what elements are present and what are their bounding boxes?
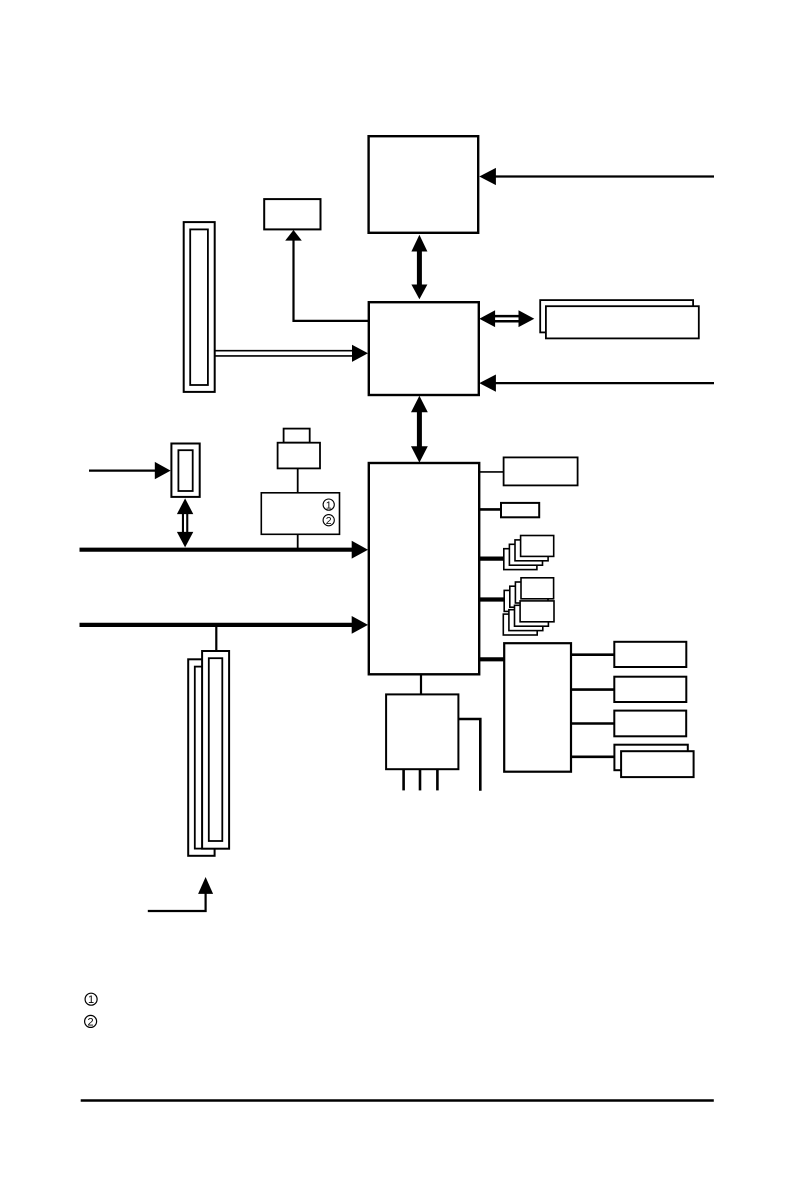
USB stack B upper (4 ports) (504, 578, 553, 612)
note mark 2 in box (323, 515, 334, 527)
floppy box (614, 711, 686, 737)
wire: audio codec right bent line down (458, 719, 480, 791)
SATA box (501, 503, 539, 517)
CPU box U1 (369, 136, 479, 233)
wire: super IO to floppy box (571, 722, 614, 725)
wire: PCI bus down to PCI slots (215, 626, 217, 652)
wire: arrow into CPU right side (494, 175, 714, 177)
LPT box (614, 677, 686, 702)
footnote mark 1 (85, 993, 97, 1006)
footnote mark 2 (85, 1015, 97, 1028)
svg-text:2: 2 (326, 515, 332, 527)
svg-text:1: 1 (326, 499, 332, 511)
BIOS chip body (278, 443, 320, 469)
wire: bottom bent arrow up to PCI slots (148, 892, 206, 911)
USB stack B lower (4 ports) (503, 601, 554, 635)
memory slot (front) (546, 306, 699, 338)
wire: SB to USB stack A (479, 556, 521, 560)
BIOS chip notch (284, 429, 310, 443)
svg-text:1: 1 (88, 994, 94, 1006)
wire: super IO to IDE boxes (571, 755, 614, 758)
super IO box U4 (504, 643, 571, 772)
north bridge box U2 (369, 302, 479, 395)
wire: PCI bus thick arrow into SB (80, 623, 353, 627)
box: clock generator (264, 199, 320, 229)
wire: NB to clock generator with up arrow (294, 239, 370, 321)
svg-text:2: 2 (88, 1016, 94, 1028)
wire: memory bus double arrow (492, 315, 521, 323)
memory slot (back) (540, 300, 693, 332)
wire: arrow into keyboard connector (89, 470, 155, 472)
wire: SB to super IO thick line (479, 657, 505, 661)
IDE box (front) (621, 751, 694, 777)
wire: hollow arrow slot to NB (215, 350, 353, 352)
audio pin stub 2 (419, 770, 422, 791)
wire: SB to SATA box (479, 508, 501, 511)
footer rule (81, 1099, 714, 1102)
wire: super IO to COM box (571, 653, 614, 656)
audio codec box U5 (386, 694, 458, 769)
wire: LPC bus thick arrow into SB (80, 548, 353, 552)
audio pin stub 3 (436, 770, 439, 791)
wire: keyboard double arrow to LPC bus (182, 511, 188, 535)
wire: NB-SB thick double arrow (417, 409, 422, 449)
IDE box (back) (614, 745, 687, 771)
wire: BIOS to dual BIOS box (297, 468, 299, 493)
PCI slot J3 (front) (202, 651, 229, 849)
wire: SB down to audio codec (420, 675, 422, 696)
keyboard connector J2 (171, 444, 199, 497)
wire: super IO to LPT box (571, 688, 614, 691)
wire: dual BIOS box to LPC bus (297, 534, 299, 548)
AGP/PCIe x16 slot J1 (184, 222, 215, 392)
note mark 1 in box (323, 499, 334, 511)
USB stack A (4 ports) (504, 536, 554, 570)
wire: arrow into NB right side (494, 382, 714, 384)
audio pin stub 1 (402, 770, 405, 791)
COM box (614, 642, 686, 667)
wire: SB to USB stack B (479, 597, 521, 601)
LAN box (504, 457, 578, 485)
wire: SB to LAN box (479, 471, 504, 473)
south bridge box U3 (369, 463, 479, 674)
PCI slot J4 (back) (188, 659, 214, 856)
wire: CPU-NB thick double arrow (417, 248, 422, 287)
dual BIOS box with notes 1 and 2 (261, 493, 339, 535)
